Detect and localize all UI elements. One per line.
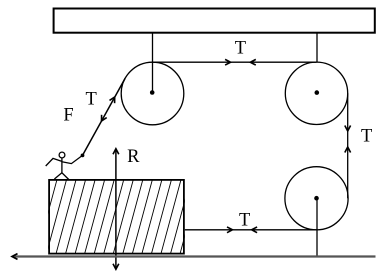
svg-text:T: T <box>361 126 372 146</box>
ceiling beam <box>54 9 375 33</box>
diagonal rope force arrow <box>102 115 107 121</box>
pulley P2 <box>285 62 347 124</box>
left pulley support <box>152 33 154 94</box>
svg-text:F: F <box>63 105 73 125</box>
svg-text:T: T <box>239 211 250 231</box>
stick figure head <box>59 152 65 158</box>
block hatching <box>27 179 200 255</box>
top rope <box>153 61 317 63</box>
pulley P3 <box>285 167 348 230</box>
ground <box>13 255 376 257</box>
stick figure body <box>61 158 63 173</box>
svg-text:R: R <box>127 147 140 167</box>
stick figure left arm <box>46 158 62 166</box>
bottom rope <box>185 229 317 231</box>
stick figure legs <box>54 173 68 180</box>
pulley P1 <box>121 62 184 125</box>
top rope left arrow <box>250 59 256 65</box>
bottom rope right arrow <box>227 227 233 233</box>
right rope up arrow <box>345 147 351 153</box>
svg-text:T: T <box>85 90 96 110</box>
right pulley support <box>316 33 318 63</box>
reaction force R arrow <box>115 149 117 270</box>
right rope down arrow <box>345 126 351 132</box>
ground left arrow <box>12 254 18 260</box>
stick figure right arm <box>62 155 83 163</box>
diagonal rope <box>83 78 126 155</box>
diagonal rope tension arrow <box>110 97 115 103</box>
block <box>49 180 184 254</box>
svg-text:T: T <box>235 39 246 59</box>
hand grip dot <box>81 154 85 158</box>
top rope right arrow <box>225 59 231 65</box>
right rope <box>347 93 349 198</box>
bottom pulley support <box>316 198 318 256</box>
bottom rope left arrow <box>252 227 258 233</box>
